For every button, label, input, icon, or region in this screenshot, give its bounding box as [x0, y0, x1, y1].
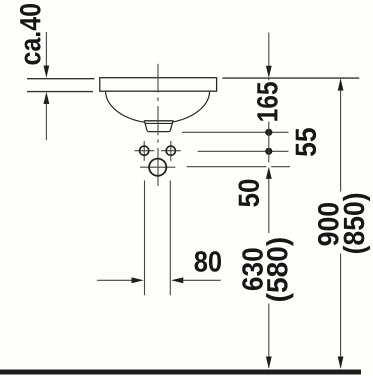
reference line C (main hole level) right part	[271, 166, 290, 168]
label ca.40	[20, 4, 41, 64]
center line dash 1	[157, 64, 159, 93]
ca.40 arrowhead up	[44, 92, 50, 104]
extension line below right hole	[169, 181, 171, 296]
floor line	[0, 370, 361, 375]
900 dimension upper shaft	[340, 90, 342, 192]
label 165	[257, 82, 278, 121]
reference line C (main hole level) left part	[187, 166, 267, 168]
left faucet hole circle	[140, 146, 149, 155]
ca.40 dimension lower shaft	[45, 103, 47, 140]
right faucet hole cross vertical	[170, 141, 172, 161]
countertop line right segment	[222, 77, 359, 79]
countertop bottom line left segment	[27, 91, 93, 93]
80 dimension left arrowhead	[132, 277, 144, 283]
countertop top line left segment	[27, 78, 95, 80]
main faucet hole circle	[149, 159, 166, 176]
80 dimension right arrowhead	[171, 277, 183, 283]
label 900	[318, 203, 339, 245]
900 dimension lower shaft	[340, 254, 342, 368]
center line dash 2	[157, 106, 159, 135]
center line dot 1	[157, 97, 159, 101]
900 dimension arrowhead up at countertop	[338, 78, 344, 90]
right faucet hole cross horizontal	[161, 150, 181, 152]
arrowhead down at floor (630 dim)	[266, 357, 272, 369]
dimension line below 50 arrowhead	[268, 172, 270, 233]
right faucet hole circle	[166, 146, 175, 155]
label 50	[238, 180, 259, 207]
dimension line stub below countertop	[268, 78, 270, 80]
left faucet hole cross vertical	[143, 141, 145, 161]
80 dimension right shaft	[182, 279, 221, 281]
ca.40 arrowhead down	[44, 66, 50, 78]
arrowhead up at line C	[266, 167, 272, 179]
main faucet hole cross horizontal	[140, 166, 175, 168]
arrowhead down at countertop	[266, 66, 272, 78]
drain trap top line	[144, 120, 173, 122]
basin rim rectangle	[100, 78, 217, 92]
label 80	[195, 251, 221, 272]
drain trap body	[144, 121, 173, 132]
ca.40 dimension arrow down (above countertop)	[45, 32, 47, 66]
label (580)	[266, 238, 293, 301]
center line dot 2	[157, 139, 159, 142]
chain dot on line A	[265, 129, 272, 136]
left faucet hole cross horizontal	[135, 150, 155, 152]
dimension line lower shaft to floor	[268, 304, 270, 368]
dimension line through chain dots	[268, 122, 270, 163]
basin bowl arc	[106, 91, 210, 123]
drain inner rim line	[145, 122, 172, 124]
chain dot on line B	[265, 148, 272, 155]
label (850)	[343, 194, 370, 253]
label 630	[242, 248, 263, 290]
arrowhead down at floor (900 dim)	[338, 357, 344, 369]
label 55	[296, 128, 316, 156]
extension line below left hole	[144, 181, 146, 296]
80 dimension left shaft	[97, 279, 133, 281]
dimension line 165/55/50/630 upper shaft	[268, 33, 270, 67]
reference line A (drain outlet level)	[182, 131, 289, 133]
reference line B (side holes level)	[198, 150, 289, 152]
center line dash 3	[157, 148, 159, 186]
